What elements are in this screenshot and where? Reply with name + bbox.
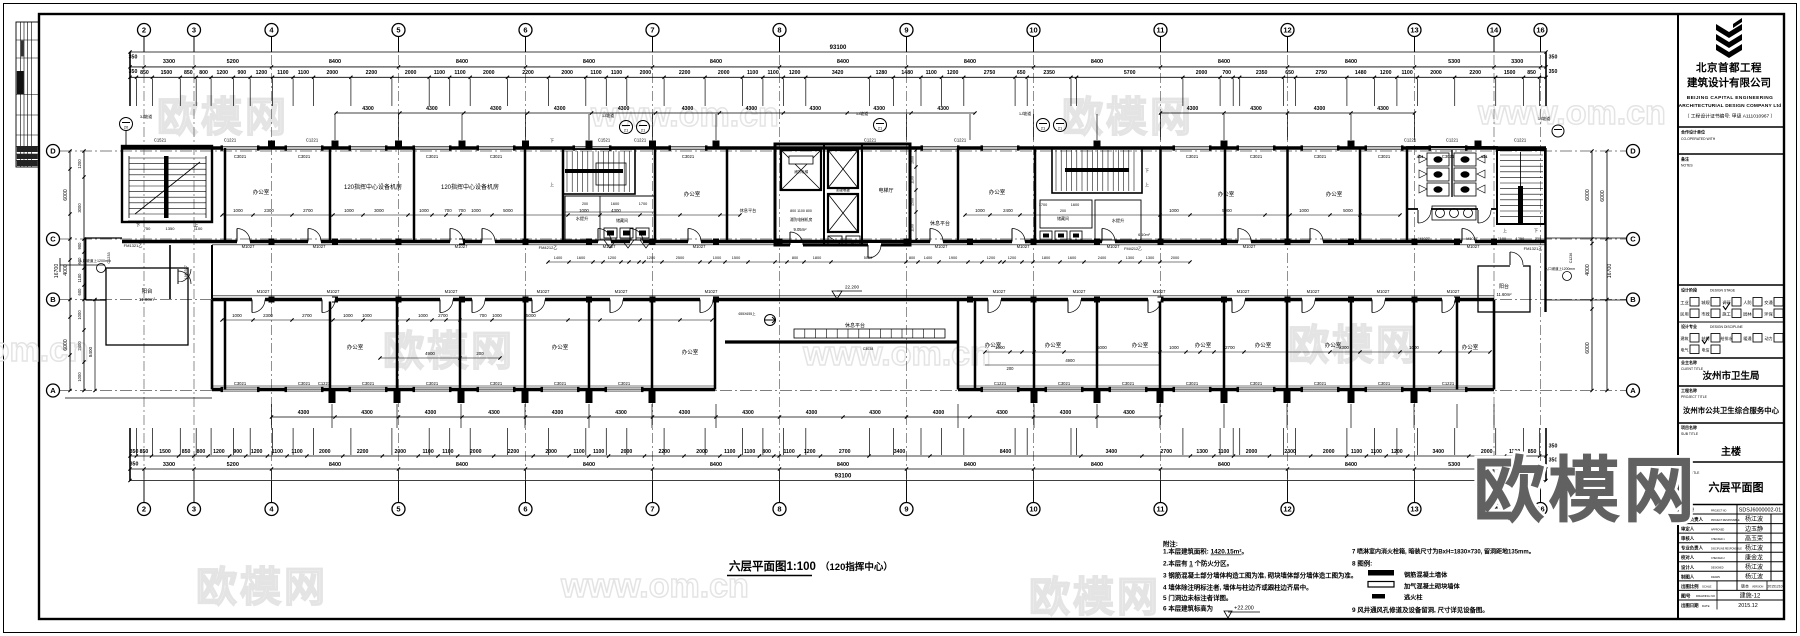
svg-text:2700: 2700 bbox=[1160, 449, 1172, 455]
svg-text:2700: 2700 bbox=[438, 313, 448, 318]
middle stairwell bbox=[563, 149, 635, 194]
svg-text:C3021: C3021 bbox=[1186, 154, 1199, 159]
svg-text:4300: 4300 bbox=[1377, 106, 1389, 112]
svg-text:21: 21 bbox=[1058, 126, 1063, 131]
svg-text:2200: 2200 bbox=[679, 70, 691, 76]
svg-text:C3021: C3021 bbox=[426, 154, 439, 159]
svg-text:上: 上 bbox=[550, 181, 554, 187]
svg-text:4900: 4900 bbox=[425, 351, 435, 356]
svg-text:1000: 1000 bbox=[362, 313, 372, 318]
svg-text:800: 800 bbox=[792, 256, 798, 260]
right end wall bbox=[1544, 148, 1546, 312]
svg-text:4300: 4300 bbox=[806, 410, 818, 416]
svg-text:消防电梯: 消防电梯 bbox=[794, 169, 809, 174]
svg-text:2000: 2000 bbox=[561, 70, 573, 76]
svg-text:1000: 1000 bbox=[471, 208, 481, 213]
svg-text:21: 21 bbox=[641, 128, 646, 133]
svg-text:350: 350 bbox=[130, 449, 139, 455]
svg-text:8400: 8400 bbox=[837, 462, 849, 468]
svg-text:2350: 2350 bbox=[1043, 70, 1055, 76]
svg-text:3: 3 bbox=[192, 26, 196, 35]
svg-text:B: B bbox=[50, 295, 56, 304]
svg-text:C3021: C3021 bbox=[1378, 154, 1391, 159]
svg-text:1000: 1000 bbox=[344, 208, 354, 213]
svg-text:11.80m²: 11.80m² bbox=[139, 297, 156, 302]
svg-text:1100: 1100 bbox=[783, 449, 794, 455]
svg-text:主楼: 主楼 bbox=[1721, 445, 1741, 458]
svg-text:DATE: DATE bbox=[1702, 604, 1710, 608]
svg-text:1100: 1100 bbox=[911, 176, 915, 184]
svg-text:建筑: 建筑 bbox=[1681, 335, 1689, 341]
svg-text:M1027: M1027 bbox=[603, 244, 616, 249]
svg-text:1200: 1200 bbox=[256, 70, 268, 76]
svg-text:4300: 4300 bbox=[1060, 410, 1072, 416]
svg-text:6: 6 bbox=[523, 505, 527, 514]
svg-text:1900: 1900 bbox=[949, 256, 957, 260]
svg-text:M1027: M1027 bbox=[1073, 289, 1086, 294]
svg-text:C3021: C3021 bbox=[1314, 381, 1327, 386]
svg-text:350: 350 bbox=[1549, 444, 1558, 450]
svg-text:4300: 4300 bbox=[742, 410, 754, 416]
svg-text:4300: 4300 bbox=[810, 106, 822, 112]
svg-text:750: 750 bbox=[1535, 237, 1541, 241]
svg-text:C3021: C3021 bbox=[426, 381, 439, 386]
svg-text:1000: 1000 bbox=[77, 372, 82, 382]
svg-text:16: 16 bbox=[1536, 26, 1544, 35]
svg-text:CO-OPERATED WITH: CO-OPERATED WITH bbox=[1681, 137, 1716, 141]
svg-text:1500: 1500 bbox=[161, 70, 173, 76]
svg-text:C3021: C3021 bbox=[1186, 381, 1199, 386]
svg-text:1100: 1100 bbox=[422, 449, 433, 455]
svg-text:C1221: C1221 bbox=[318, 381, 331, 386]
svg-text:上: 上 bbox=[1503, 227, 1507, 233]
svg-text:DRAWN: DRAWN bbox=[1711, 576, 1720, 579]
svg-text:16700: 16700 bbox=[54, 264, 60, 279]
svg-text:北京首都工程: 北京首都工程 bbox=[1696, 61, 1762, 74]
svg-text:1500: 1500 bbox=[159, 449, 171, 455]
svg-text:1800: 1800 bbox=[1042, 256, 1050, 260]
svg-text:4300: 4300 bbox=[869, 410, 881, 416]
svg-text:SUB TITLE: SUB TITLE bbox=[1681, 432, 1699, 436]
svg-text:M1027: M1027 bbox=[1153, 289, 1166, 294]
storage / pump rooms below middle stair bbox=[565, 196, 655, 240]
svg-text:2400: 2400 bbox=[77, 341, 82, 351]
svg-text:350: 350 bbox=[130, 462, 139, 468]
svg-text:1100: 1100 bbox=[573, 449, 584, 455]
svg-text:人防: 人防 bbox=[1743, 299, 1751, 306]
water pump room bbox=[1095, 200, 1141, 240]
svg-text:1350: 1350 bbox=[166, 226, 176, 231]
svg-text:M1027: M1027 bbox=[1017, 244, 1030, 249]
svg-text:93100: 93100 bbox=[835, 474, 852, 480]
svg-text:M1027: M1027 bbox=[1466, 237, 1478, 241]
svg-text:5300: 5300 bbox=[1448, 462, 1460, 468]
svg-text:APPROVED: APPROVED bbox=[1711, 528, 1725, 531]
svg-text:办公室: 办公室 bbox=[552, 343, 569, 351]
svg-text:4300: 4300 bbox=[1250, 106, 1262, 112]
svg-text:5000: 5000 bbox=[1343, 208, 1353, 213]
svg-text:C: C bbox=[50, 235, 56, 244]
terrace parapet bbox=[725, 340, 958, 343]
stairwell right of core bbox=[1052, 148, 1142, 193]
doors on corridor north wall bbox=[237, 240, 250, 244]
svg-text:1100: 1100 bbox=[291, 449, 302, 455]
svg-text:M1027: M1027 bbox=[242, 244, 255, 249]
svg-text:休息平台: 休息平台 bbox=[930, 220, 950, 227]
svg-text:担架电梯: 担架电梯 bbox=[836, 188, 850, 193]
svg-text:C1221: C1221 bbox=[224, 138, 237, 143]
svg-text:1300: 1300 bbox=[1126, 256, 1134, 260]
svg-text:414: 414 bbox=[1417, 154, 1424, 159]
svg-text:650: 650 bbox=[1017, 70, 1026, 76]
svg-text:6.10m²: 6.10m² bbox=[1138, 233, 1151, 237]
svg-text:1600: 1600 bbox=[1068, 256, 1076, 260]
svg-text:2000: 2000 bbox=[1196, 70, 1208, 76]
svg-text:3: 3 bbox=[192, 505, 196, 514]
svg-text:4300: 4300 bbox=[361, 410, 373, 416]
svg-text:C1221: C1221 bbox=[634, 138, 647, 143]
partitions top band bbox=[224, 148, 227, 242]
svg-text:6000: 6000 bbox=[1585, 189, 1591, 201]
svg-text:加气混凝土砌块墙体: 加气混凝土砌块墙体 bbox=[1403, 583, 1460, 591]
svg-text:欧模网: 欧模网 bbox=[196, 564, 328, 610]
svg-text:动力: 动力 bbox=[1765, 335, 1773, 341]
svg-text:8400: 8400 bbox=[329, 462, 341, 468]
storage room bbox=[1040, 200, 1092, 228]
svg-text:FM4212乙: FM4212乙 bbox=[539, 244, 558, 250]
svg-text:C1221: C1221 bbox=[1404, 138, 1417, 143]
svg-text:1000: 1000 bbox=[419, 208, 429, 213]
svg-text:8400: 8400 bbox=[1345, 59, 1357, 65]
small fixtures row bbox=[1040, 231, 1052, 240]
svg-text:1500: 1500 bbox=[732, 256, 740, 260]
svg-text:16700: 16700 bbox=[1607, 264, 1613, 279]
svg-text:21: 21 bbox=[624, 128, 629, 133]
svg-text:M1027: M1027 bbox=[257, 289, 270, 294]
svg-text:8400: 8400 bbox=[964, 462, 976, 468]
svg-text:4300: 4300 bbox=[996, 410, 1008, 416]
svg-text:1200: 1200 bbox=[77, 159, 82, 169]
svg-text:6000: 6000 bbox=[1585, 342, 1591, 354]
svg-text:储藏间: 储藏间 bbox=[616, 217, 628, 223]
svg-text:7: 7 bbox=[650, 505, 654, 514]
svg-text:14: 14 bbox=[1490, 26, 1499, 35]
svg-text:4300: 4300 bbox=[488, 410, 500, 416]
svg-text:2700: 2700 bbox=[1225, 345, 1235, 350]
svg-text:2200: 2200 bbox=[366, 70, 378, 76]
svg-text:12: 12 bbox=[1283, 26, 1291, 35]
svg-text:8: 8 bbox=[777, 505, 781, 514]
svg-text:700: 700 bbox=[444, 208, 452, 213]
svg-text:850: 850 bbox=[1527, 70, 1536, 76]
svg-text:FM1321乙: FM1321乙 bbox=[1524, 245, 1543, 251]
svg-text:4300: 4300 bbox=[746, 106, 758, 112]
svg-text:工程名称: 工程名称 bbox=[1681, 387, 1697, 393]
stall wing walls bbox=[1419, 155, 1427, 163]
svg-text:PROJECT RESPONSIBLE: PROJECT RESPONSIBLE bbox=[1711, 519, 1740, 522]
svg-text:800: 800 bbox=[197, 449, 206, 455]
svg-text:C3021: C3021 bbox=[1442, 154, 1455, 159]
svg-text:办公室: 办公室 bbox=[1325, 341, 1342, 349]
svg-text:办公室: 办公室 bbox=[989, 188, 1006, 196]
svg-text:工业: 工业 bbox=[1680, 299, 1688, 305]
svg-text:1000: 1000 bbox=[579, 208, 589, 213]
svg-text:655X655上: 655X655上 bbox=[739, 311, 757, 316]
svg-text:下: 下 bbox=[1145, 168, 1149, 173]
svg-text:交通: 交通 bbox=[1764, 299, 1773, 306]
svg-text:审核人: 审核人 bbox=[1681, 535, 1695, 542]
elevator 1 (fire lift) bbox=[781, 150, 821, 190]
svg-text:M1027: M1027 bbox=[1377, 289, 1390, 294]
bottom band inner edges bbox=[211, 300, 214, 390]
svg-text:2000: 2000 bbox=[1171, 256, 1179, 260]
svg-text:CHECKED 1: CHECKED 1 bbox=[1711, 538, 1725, 541]
svg-text:2750: 2750 bbox=[1316, 70, 1328, 76]
svg-text:4900: 4900 bbox=[1065, 358, 1075, 363]
svg-text:备注: 备注 bbox=[1680, 156, 1689, 162]
svg-text:M1027: M1027 bbox=[327, 289, 340, 294]
svg-text:休息平台: 休息平台 bbox=[845, 322, 865, 329]
svg-text:93100: 93100 bbox=[830, 45, 847, 51]
svg-text:1000: 1000 bbox=[1299, 208, 1309, 213]
svg-text:1200: 1200 bbox=[789, 70, 801, 76]
svg-text:欧模网: 欧模网 bbox=[383, 328, 515, 374]
svg-text:DISCIPLINE RESPONSIBLE: DISCIPLINE RESPONSIBLE bbox=[1711, 548, 1742, 551]
svg-text:1000: 1000 bbox=[492, 313, 502, 318]
svg-text:2015.12: 2015.12 bbox=[1738, 603, 1758, 609]
svg-text:1700: 1700 bbox=[639, 202, 647, 206]
svg-text:1600: 1600 bbox=[577, 256, 585, 260]
svg-text:阳台: 阳台 bbox=[1499, 283, 1509, 290]
title block table bbox=[1678, 513, 1784, 515]
svg-text:1100: 1100 bbox=[911, 224, 915, 232]
svg-text:20: 20 bbox=[124, 125, 129, 130]
svg-text:M1027: M1027 bbox=[537, 289, 550, 294]
svg-text:7: 7 bbox=[650, 26, 654, 35]
svg-text:3 钢筋混凝土部分墙体构造工图为准, 砌块墙体部分墙体造工图: 3 钢筋混凝土部分墙体构造工图为准, 砌块墙体部分墙体造工图为准。 bbox=[1163, 571, 1357, 580]
svg-text:21: 21 bbox=[878, 126, 883, 131]
svg-text:杨江波: 杨江波 bbox=[1745, 544, 1763, 552]
svg-text:5: 5 bbox=[396, 505, 400, 514]
svg-text:杨江波: 杨江波 bbox=[1745, 563, 1763, 571]
svg-text:城规: 城规 bbox=[1701, 299, 1709, 306]
svg-text:上: 上 bbox=[1145, 181, 1149, 187]
svg-text:1600: 1600 bbox=[611, 202, 619, 206]
shafts below core bbox=[828, 236, 842, 245]
svg-text:9 风井通风孔修道及设备留洞, 尺寸详见设备图。: 9 风井通风孔修道及设备留洞, 尺寸详见设备图。 bbox=[1352, 605, 1489, 614]
svg-text:给排水: 给排水 bbox=[1721, 335, 1733, 341]
svg-text:出图比例: 出图比例 bbox=[1681, 583, 1699, 590]
corridor wall plaster lines bbox=[212, 244, 1546, 246]
svg-text:8400: 8400 bbox=[964, 59, 976, 65]
svg-text:1100: 1100 bbox=[1401, 70, 1412, 76]
svg-text:200: 200 bbox=[1007, 366, 1015, 371]
svg-text:M1027: M1027 bbox=[993, 289, 1006, 294]
svg-text:办公室: 办公室 bbox=[684, 190, 701, 198]
svg-text:2000: 2000 bbox=[327, 70, 339, 76]
svg-text:C3021: C3021 bbox=[1058, 381, 1071, 386]
svg-text:2000: 2000 bbox=[718, 70, 730, 76]
svg-text:2500: 2500 bbox=[676, 256, 684, 260]
svg-text:C3021: C3021 bbox=[490, 381, 503, 386]
svg-text:4300: 4300 bbox=[490, 106, 502, 112]
svg-text:DRAWING NO: DRAWING NO bbox=[1696, 594, 1716, 598]
right dimension chains bbox=[1591, 151, 1593, 391]
svg-text:C3021: C3021 bbox=[298, 381, 311, 386]
bottom exterior wall (right rooms) bbox=[958, 388, 1494, 391]
svg-text:DESIGN STAGE: DESIGN STAGE bbox=[1710, 289, 1736, 293]
svg-text:1000: 1000 bbox=[343, 313, 353, 318]
svg-text:3300: 3300 bbox=[163, 462, 175, 468]
svg-text:2200: 2200 bbox=[357, 449, 369, 455]
svg-text:2200: 2200 bbox=[659, 449, 671, 455]
svg-text:1J坡道: 1J坡道 bbox=[856, 110, 868, 116]
svg-text:4300: 4300 bbox=[362, 106, 374, 112]
svg-text:1100: 1100 bbox=[590, 70, 601, 76]
svg-text:汝州市公共卫生综合服务中心: 汝州市公共卫生综合服务中心 bbox=[1683, 406, 1780, 415]
svg-text:M1027: M1027 bbox=[615, 289, 628, 294]
svg-text:电梯厅: 电梯厅 bbox=[878, 187, 893, 194]
svg-text:1500: 1500 bbox=[1504, 70, 1516, 76]
svg-text:1J坡道: 1J坡道 bbox=[602, 112, 614, 118]
svg-text:5 门洞边未标注者详图。: 5 门洞边未标注者详图。 bbox=[1163, 593, 1232, 602]
svg-text:850: 850 bbox=[184, 70, 193, 76]
svg-text:8400: 8400 bbox=[1000, 449, 1012, 455]
svg-text:8400: 8400 bbox=[456, 462, 468, 468]
svg-text:CHECKED 2: CHECKED 2 bbox=[1711, 557, 1725, 560]
interior dims top band left bbox=[222, 214, 740, 216]
svg-text:办公室: 办公室 bbox=[1132, 341, 1149, 349]
svg-text:20151210: 20151210 bbox=[1767, 585, 1782, 589]
svg-text:1100: 1100 bbox=[442, 449, 453, 455]
svg-text:9.05m²: 9.05m² bbox=[793, 227, 807, 232]
svg-text:2300: 2300 bbox=[263, 313, 273, 318]
svg-text:5000: 5000 bbox=[1222, 208, 1232, 213]
svg-text:设计人: 设计人 bbox=[1681, 564, 1695, 571]
svg-text:PROJECT TITLE: PROJECT TITLE bbox=[1681, 395, 1708, 399]
svg-text:2700: 2700 bbox=[302, 313, 312, 318]
svg-text:项目名称: 项目名称 bbox=[1681, 424, 1697, 430]
svg-text:1100: 1100 bbox=[1371, 449, 1382, 455]
svg-text:入口坡道上1200mm: 入口坡道上1200mm bbox=[79, 258, 111, 263]
svg-text:汝州市卫生局: 汝州市卫生局 bbox=[1702, 370, 1759, 382]
svg-text:专业负责人: 专业负责人 bbox=[1681, 545, 1704, 552]
svg-text:（120指挥中心）: （120指挥中心） bbox=[820, 561, 893, 573]
svg-text:8400: 8400 bbox=[583, 59, 595, 65]
svg-text:3300: 3300 bbox=[163, 59, 175, 65]
svg-text:设计阶段: 设计阶段 bbox=[1681, 287, 1697, 293]
svg-text:4300: 4300 bbox=[552, 410, 564, 416]
svg-text:合作设计单位: 合作设计单位 bbox=[1681, 129, 1705, 135]
svg-text:1100: 1100 bbox=[747, 70, 758, 76]
svg-text:办公室: 办公室 bbox=[1218, 190, 1235, 198]
svg-text:1500: 1500 bbox=[911, 198, 915, 206]
svg-text:8400: 8400 bbox=[1345, 462, 1357, 468]
svg-text:4300: 4300 bbox=[298, 410, 310, 416]
svg-text:C3021: C3021 bbox=[1250, 154, 1263, 159]
svg-text:600: 600 bbox=[77, 288, 82, 296]
svg-text:8400: 8400 bbox=[329, 59, 341, 65]
svg-text:欧模网: 欧模网 bbox=[1029, 574, 1161, 620]
svg-text:2000: 2000 bbox=[1323, 449, 1335, 455]
svg-text:六层平面图1:100: 六层平面图1:100 bbox=[729, 559, 816, 573]
svg-text:700: 700 bbox=[458, 208, 466, 213]
svg-text:杨江波: 杨江波 bbox=[1745, 515, 1763, 523]
interior dims top band right bbox=[965, 214, 1400, 216]
svg-text:5: 5 bbox=[396, 26, 400, 35]
svg-text:8400: 8400 bbox=[1091, 59, 1103, 65]
svg-text:800: 800 bbox=[199, 70, 208, 76]
svg-text:C3021: C3021 bbox=[490, 154, 503, 159]
svg-text:C: C bbox=[1630, 235, 1636, 244]
svg-text:13: 13 bbox=[1410, 505, 1418, 514]
svg-text:1200: 1200 bbox=[947, 70, 959, 76]
svg-text:6000: 6000 bbox=[63, 339, 69, 351]
svg-text:C3021: C3021 bbox=[234, 381, 247, 386]
svg-text:1200: 1200 bbox=[213, 449, 225, 455]
svg-text:钢筋混凝土墙体: 钢筋混凝土墙体 bbox=[1404, 571, 1448, 579]
svg-text:1200: 1200 bbox=[217, 70, 229, 76]
svg-text:11: 11 bbox=[1157, 505, 1165, 514]
svg-text:2200: 2200 bbox=[522, 70, 534, 76]
svg-text:8400: 8400 bbox=[1218, 59, 1230, 65]
svg-text:CLIENT TITLE: CLIENT TITLE bbox=[1681, 367, 1704, 371]
svg-text:1000: 1000 bbox=[232, 313, 242, 318]
svg-text:4300: 4300 bbox=[1314, 106, 1326, 112]
left dimension chains bbox=[69, 151, 71, 391]
grid center lines bbox=[143, 37, 145, 502]
svg-text:入口坡道上1200mm: 入口坡道上1200mm bbox=[1545, 266, 1575, 271]
svg-text:1000: 1000 bbox=[77, 310, 82, 320]
inner landing box bbox=[596, 163, 626, 185]
wash basins bbox=[1432, 206, 1476, 220]
terrace hatch strip bbox=[794, 329, 945, 338]
svg-text:欧模网: 欧模网 bbox=[1473, 452, 1698, 531]
svg-text:图号: 图号 bbox=[1681, 593, 1691, 600]
svg-text:建筑设计有限公司: 建筑设计有限公司 bbox=[1686, 76, 1771, 89]
svg-text:校对人: 校对人 bbox=[1681, 554, 1695, 561]
right stairwell bbox=[1497, 150, 1545, 224]
svg-text:C3021: C3021 bbox=[1314, 154, 1327, 159]
left entrance and balcony bbox=[169, 245, 171, 299]
svg-text:350: 350 bbox=[129, 69, 138, 75]
svg-text:M1027: M1027 bbox=[1307, 289, 1320, 294]
svg-text:8 图例:: 8 图例: bbox=[1352, 559, 1372, 568]
svg-text:SCALE: SCALE bbox=[1702, 585, 1712, 589]
svg-text:1400: 1400 bbox=[924, 256, 932, 260]
svg-text:欧模网: 欧模网 bbox=[1288, 322, 1420, 368]
svg-text:C3021: C3021 bbox=[554, 381, 567, 386]
svg-text:C1221: C1221 bbox=[954, 138, 967, 143]
svg-text:750: 750 bbox=[144, 226, 151, 231]
svg-text:200: 200 bbox=[476, 351, 484, 356]
svg-text:1000: 1000 bbox=[233, 208, 243, 213]
svg-text:1200: 1200 bbox=[647, 256, 655, 260]
svg-text:3400: 3400 bbox=[1106, 449, 1118, 455]
svg-text:休息平台: 休息平台 bbox=[740, 207, 757, 214]
svg-text:350: 350 bbox=[1549, 55, 1558, 61]
svg-text:SDSJ6000002-01: SDSJ6000002-01 bbox=[1739, 508, 1782, 514]
svg-text:2300: 2300 bbox=[1284, 449, 1296, 455]
svg-text:版本: 版本 bbox=[1741, 583, 1749, 589]
svg-text:办公室: 办公室 bbox=[347, 343, 364, 351]
svg-text:120指挥中心设备机房: 120指挥中心设备机房 bbox=[344, 183, 402, 191]
svg-text:650: 650 bbox=[1285, 70, 1294, 76]
svg-text:350: 350 bbox=[129, 55, 138, 61]
svg-text:边玉静: 边玉静 bbox=[1745, 525, 1763, 533]
svg-text:C1221: C1221 bbox=[1442, 381, 1455, 386]
svg-text:3400: 3400 bbox=[894, 449, 906, 455]
